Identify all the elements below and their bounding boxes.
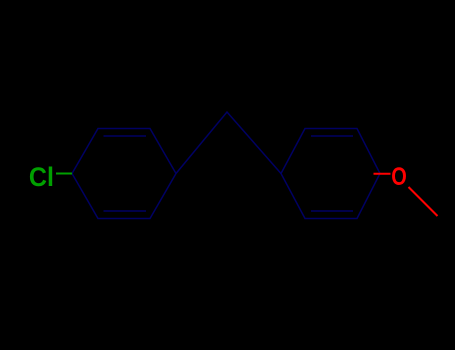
svg-text:O: O [391, 163, 407, 191]
svg-text:Cl: Cl [29, 161, 54, 192]
